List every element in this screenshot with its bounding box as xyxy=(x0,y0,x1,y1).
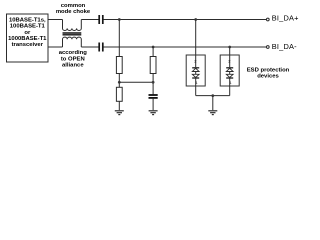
transceiver box U1 xyxy=(7,14,49,62)
ESD device D1 box xyxy=(186,55,205,86)
label: ESD protection devices xyxy=(247,68,290,80)
svg-text:BI_DA-: BI_DA- xyxy=(272,42,297,51)
svg-text:10BASE-T1s,: 10BASE-T1s, xyxy=(9,17,46,23)
svg-text:devices: devices xyxy=(257,74,279,80)
node D (bottom line / R3 branch) xyxy=(152,46,155,49)
wire: node F down to ESD device D2 xyxy=(229,47,231,67)
resistor R2 xyxy=(116,87,122,101)
wire: node A down to R1 xyxy=(118,20,120,57)
diode D1a cathode bar xyxy=(192,67,199,69)
wire: top line capacitor C1 to terminal xyxy=(104,19,267,21)
svg-text:transceiver: transceiver xyxy=(12,42,44,48)
ESD device D2 box xyxy=(220,55,239,86)
wire: top line from transceiver to choke xyxy=(48,19,63,21)
svg-text:to OPEN: to OPEN xyxy=(61,56,85,62)
svg-text:or: or xyxy=(24,30,31,36)
resistor R1 xyxy=(116,57,122,74)
svg-text:BI_DA+: BI_DA+ xyxy=(272,14,299,23)
node B (center tap left) xyxy=(118,81,121,84)
transceiver text xyxy=(8,17,47,48)
wire: C3 to ground xyxy=(152,99,154,111)
svg-text:mode choke: mode choke xyxy=(56,9,91,15)
label: according to OPEN alliance xyxy=(59,50,88,68)
svg-text:according: according xyxy=(59,50,88,56)
diode D2a triangle xyxy=(226,68,233,71)
wire: node D down to R3 xyxy=(152,47,154,57)
diode D2a cathode bar xyxy=(226,67,233,69)
diode D1b triangle xyxy=(192,74,199,77)
svg-text:2: 2 xyxy=(194,58,197,63)
terminal BI_DA+ xyxy=(266,18,269,21)
wire: D2a to D2b xyxy=(229,72,231,75)
svg-text:2: 2 xyxy=(228,58,231,63)
common mode choke L1 top winding xyxy=(63,20,82,31)
wire: bottom line choke to capacitor C2 xyxy=(81,46,98,48)
svg-text:ESD protection: ESD protection xyxy=(247,68,290,74)
wire: D1 to ESD common node xyxy=(195,79,197,96)
capacitor C2 (series, bottom line) xyxy=(98,43,100,52)
wire: node G to ground xyxy=(212,96,214,111)
diode D1a triangle xyxy=(192,68,199,71)
svg-text:common: common xyxy=(61,3,86,9)
wire: bottom line from transceiver to choke xyxy=(48,46,63,48)
wire: D2 to ESD common node xyxy=(229,79,231,96)
svg-text:alliance: alliance xyxy=(62,63,84,69)
node G (ESD ground node) xyxy=(211,94,214,97)
diode D2b triangle xyxy=(226,74,233,77)
capacitor C1 (series, top line) xyxy=(98,15,100,24)
capacitor C3 (shunt) xyxy=(149,94,158,96)
node F (bottom line / ESD D2 branch) xyxy=(228,46,231,49)
wire: R2 to ground xyxy=(118,101,120,110)
label: common mode choke xyxy=(56,3,91,15)
common mode choke L1 core lines xyxy=(63,32,82,34)
diode D1b cathode bar xyxy=(192,77,199,79)
diode D2b cathode bar xyxy=(226,77,233,79)
node E (top line / ESD D1 branch) xyxy=(194,18,197,21)
ground (below C3) xyxy=(149,111,158,115)
svg-text:100BASE-T1: 100BASE-T1 xyxy=(10,24,46,30)
wire: D1a to D1b xyxy=(195,72,197,75)
wire: node E down to ESD device D1 xyxy=(195,20,197,68)
node A (top line / R1 branch) xyxy=(118,18,121,21)
svg-text:1000BASE-T1: 1000BASE-T1 xyxy=(8,36,47,42)
wire: ESD common link xyxy=(196,95,230,97)
node C (center tap right) xyxy=(152,81,155,84)
terminal BI_DA- xyxy=(266,46,269,49)
ground (below R2) xyxy=(115,111,124,115)
wire: R1 to node B xyxy=(118,74,120,88)
common mode choke L1 bottom winding xyxy=(63,37,82,47)
wire: center link node B to node C xyxy=(119,81,153,83)
wire: bottom line capacitor C2 to terminal xyxy=(104,46,267,48)
wire: R3 to capacitor C3 xyxy=(152,74,154,95)
ground (ESD) xyxy=(208,111,217,115)
wire: top line choke to capacitor C1 xyxy=(81,19,98,21)
resistor R3 xyxy=(150,57,156,74)
